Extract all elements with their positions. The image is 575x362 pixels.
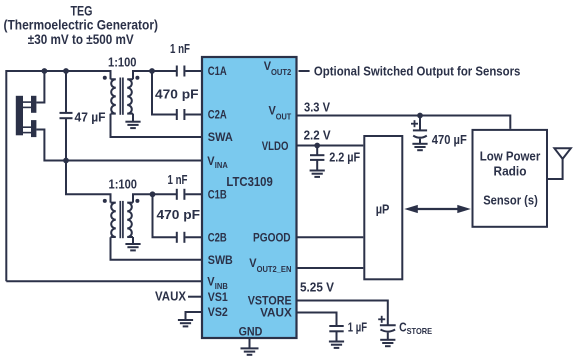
svg-text:OUT2: OUT2 <box>271 68 292 77</box>
svg-text:VAUX: VAUX <box>155 290 187 304</box>
svg-text:TEG: TEG <box>71 3 93 19</box>
svg-text:1 nF: 1 nF <box>170 42 190 56</box>
svg-text:µP: µP <box>376 201 390 216</box>
svg-text:V: V <box>249 256 256 270</box>
svg-text:C2A: C2A <box>208 108 227 122</box>
svg-text:VS1: VS1 <box>208 290 228 304</box>
svg-text:1:100: 1:100 <box>108 54 137 69</box>
svg-text:2.2 µF: 2.2 µF <box>329 150 360 164</box>
svg-text:STORE: STORE <box>407 326 433 336</box>
svg-text:OUT: OUT <box>276 112 292 121</box>
svg-text:Optional Switched Output for S: Optional Switched Output for Sensors <box>314 64 521 78</box>
svg-text:C1B: C1B <box>208 188 227 202</box>
svg-text:V: V <box>207 154 214 168</box>
svg-text:±30 mV to ±500 mV: ±30 mV to ±500 mV <box>28 32 134 47</box>
svg-text:470 pF: 470 pF <box>155 87 199 101</box>
svg-text:PGOOD: PGOOD <box>253 231 291 245</box>
svg-text:C1A: C1A <box>208 64 227 78</box>
svg-text:V: V <box>207 275 214 289</box>
svg-text:SWB: SWB <box>208 253 233 267</box>
svg-text:1 nF: 1 nF <box>168 173 188 187</box>
svg-text:470 pF: 470 pF <box>157 208 201 222</box>
svg-text:Radio: Radio <box>494 164 527 179</box>
svg-text:1 µF: 1 µF <box>348 320 367 334</box>
svg-text:C2B: C2B <box>208 231 227 245</box>
svg-text:INB: INB <box>215 282 228 291</box>
svg-text:INA: INA <box>215 161 228 170</box>
svg-text:470 µF: 470 µF <box>432 133 467 147</box>
svg-text:Sensor (s): Sensor (s) <box>483 193 538 208</box>
svg-text:2.2 V: 2.2 V <box>304 129 332 143</box>
svg-text:1:100: 1:100 <box>109 177 138 192</box>
svg-text:V: V <box>269 104 276 118</box>
svg-text:SWA: SWA <box>208 130 233 144</box>
svg-text:47 µF: 47 µF <box>75 111 106 125</box>
svg-text:LTC3109: LTC3109 <box>226 175 272 189</box>
svg-text:3.3 V: 3.3 V <box>304 100 331 114</box>
svg-text:(Thermoelectric Generator): (Thermoelectric Generator) <box>4 18 159 33</box>
svg-text:Low Power: Low Power <box>480 149 541 164</box>
svg-text:5.25 V: 5.25 V <box>300 281 335 295</box>
svg-text:VS2: VS2 <box>208 305 228 319</box>
svg-text:V: V <box>264 59 271 73</box>
svg-text:GND: GND <box>239 324 263 338</box>
svg-text:VLDO: VLDO <box>262 139 289 153</box>
svg-text:VAUX: VAUX <box>260 306 292 320</box>
svg-text:OUT2_EN: OUT2_EN <box>257 265 292 274</box>
